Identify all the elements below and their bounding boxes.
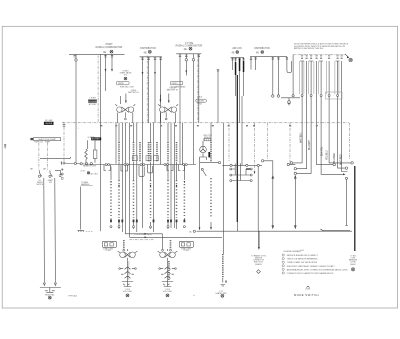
reverse switch black box [88,100,97,103]
svg-text:4E: 4E [184,47,187,51]
drop hooks below y164.5 bus [104,165,185,177]
dashed lower horizontal y239.8 [130,239,155,241]
svg-text:TYPE 4A.1: TYPE 4A.1 [68,294,77,297]
node B fuse symbol [144,50,152,54]
mid wire v182.3 [181,123,183,165]
ground tree 2 stem [167,260,169,281]
svg-text:SWITCH: SWITCH [36,184,43,186]
ground tree 2 label [163,289,172,293]
mid chain v150.5 [150,123,152,229]
mid wire v174.3 [173,123,175,228]
svg-text:ANTENNA RELAY JOINT CONNECTOR: ANTENNA RELAY JOINT CONNECTOR (GREEN) AT… [287,268,348,271]
small bus y162.6 [200,162,219,164]
ground cluster symbols [45,288,55,293]
jumper hooks top of section 3 [230,163,252,181]
ground bar y287.5 [40,287,61,289]
svg-text:TURBO START SW DEFROSTER: TURBO START SW DEFROSTER [287,261,318,264]
svg-text:BODY GND: BODY GND [123,291,132,293]
start switch symbol [50,170,53,176]
legend row 6 [282,272,334,275]
mid wire v100.5 [100,54,102,231]
wire x180 from bus C [179,54,181,165]
svg-text:MODE SWITCH: MODE SWITCH [294,293,319,297]
right wire v329.1 bend right to circle [329,61,351,163]
connector circles on y164.5 bus [105,164,107,166]
bus A connector tick x112 [111,56,113,57]
svg-text:START: START [105,43,113,46]
injector connector box right [179,241,193,247]
svg-text:SERVICE ENGINE SW CONNECT: SERVICE ENGINE SW CONNECT [287,255,319,257]
banded wire x243.5 [243,58,245,97]
left relay resistor zigzag [85,149,88,160]
svg-text:4E: 4E [232,52,235,55]
relay K2 pre-label box [170,81,183,84]
partner pin stubs of right comb [299,61,339,94]
svg-text:CHOKE: CHOKE [45,123,53,125]
mid wire v136.8 [136,123,138,232]
dashed wire v229 [228,123,230,161]
wire x232.3 short [231,58,233,71]
arrowhead on x155 [154,72,156,75]
wire x278.4 to connector circle [277,57,279,95]
left edge connector mark [4,145,6,149]
wire x218 isolated with connector tick [217,70,219,123]
bracket marks at left bus end [61,161,66,165]
tiny pin labels above right connector row [301,55,343,56]
mid wire v153.5 [153,123,155,232]
svg-text:SUB ZERO START ASSY GREEN CONN: SUB ZERO START ASSY GREEN CONNECTOR ATT [287,265,336,268]
wire x155 from bus B [154,57,156,123]
short chain v157 [156,142,158,162]
tiny stacked symbols at x62 [61,168,63,170]
mid wire chain v119 (stacked wire code text) [118,123,120,229]
left relay wires [86,140,95,163]
connector circles on left bus [74,162,76,164]
left horizontal wire y158.7 [40,157,71,159]
dashed feed to oxygen sensor note [258,231,260,248]
relay K2 lower pins [160,112,175,118]
mid chain v168 [167,123,169,229]
legend row 1 [282,254,318,257]
wire: long vertical from bus A left [75,54,77,162]
switch symbol near 202,171 [203,170,207,176]
connector blob row y220 [110,220,185,223]
dashed wire v254.5 with arrow [254,123,256,173]
injector connector box right label [181,247,192,252]
ground tree 1 bar [122,282,133,287]
heated sensor chain wire [222,254,224,278]
short chain v148.5 [148,142,150,162]
oil pressure switch symbol [40,170,43,176]
bus E horizontal wire [250,56,287,58]
svg-text:WHT/RED: WHT/RED [341,154,343,165]
wire v111 with chain [110,167,112,223]
wire v242 parallel [241,96,243,165]
arrow from dashed line to ground [345,54,349,57]
svg-text:A/T ONLY: A/T ONLY [91,173,99,176]
svg-text:TO EGI: TO EGI [183,250,189,252]
right section connector row ticks [300,57,343,61]
throttle sensor labels [203,135,213,139]
bus B connector ticks [141,58,162,59]
injector connector box left [102,241,116,247]
svg-text:RADIAL COMPENSATOR: RADIAL COMPENSATOR [176,45,203,48]
wire v184.4 with chain [183,167,185,223]
svg-text:C TYPE: C TYPE [185,43,194,45]
wire x186.3 from bus C with arrowhead [185,54,187,76]
svg-text:BLK/YEL: BLK/YEL [321,146,323,156]
throttle sensor stem [200,153,207,160]
svg-text:DISTRIBUTOR: DISTRIBUTOR [140,48,156,50]
relay K2 solenoid circles with cross [160,107,165,112]
banded wire x235.5 (black sleeve) [235,58,237,97]
legend row 3 [282,261,318,264]
injector 2 bowtie solenoid [158,249,178,260]
wire bend from circle x288 to v295.3 [290,164,296,166]
heated sensor earth circle [221,294,224,297]
svg-text:1.25 B: 1.25 B [125,289,130,291]
mid wire v171 [170,123,172,228]
hollow arrowheads at ground wires [43,283,56,286]
mid chain v133.5 [133,123,135,229]
dashed wire v38.9 below pump [38,143,40,170]
feed terminal circles at injectors [123,249,125,251]
choke black box [44,122,54,125]
legend row 5 [282,268,348,271]
arrowhead on x105.5 [105,69,107,72]
harness label text [81,181,90,186]
svg-text:BODY GND: BODY GND [163,291,172,293]
left relay black box [91,137,101,140]
heated sensor terminal [221,285,226,286]
rotated wire color labels right section [300,132,342,165]
ground tree 1 crow feet [125,267,131,278]
dashed marks right of ground [86,231,93,233]
small connector block left of pump box [30,138,33,140]
svg-text:A 5MT: A 5MT [306,288,311,291]
wire x148.7 from bus B [148,57,150,123]
heavy center vertical wire [236,75,238,222]
wire v293 from dashed jumper [292,55,294,95]
svg-text:4E: 4E [256,52,259,55]
ground tree 2 earth circle [166,294,169,297]
lower horizontal y237.3 with arrow [130,236,223,238]
wire x160.7 from bus B [160,57,162,165]
connector circle + bend to v294.8 wait covered above [287,163,289,165]
relay K1 solenoid circles with cross [117,107,122,112]
connector mark on v64 [63,125,66,127]
turbo start solenoid symbol [124,77,127,80]
left relay connector circles [85,163,87,165]
legend row 4 [282,265,335,268]
arrowhead on x112 [111,69,113,72]
bus C connector ticks [179,55,200,56]
left ground wire 2 [54,178,57,283]
throttle sensor black connector [208,152,210,157]
relay K1 feed arrows [125,94,127,103]
wire v223.3 long (heated feed) [222,123,224,254]
dashed wire v349.5 [349,123,351,160]
page ref dot [194,295,195,296]
right wire v337.6 bend right to circle [338,61,346,168]
egi harness earth circle [351,268,354,271]
dashed wire v47.6 below pump [47,143,49,170]
feed wire to injector 2 [162,234,164,249]
short chain v176.5 [176,162,178,229]
svg-text:BATTERY H: BATTERY H [128,91,139,94]
node A label: START / RADIAL COMPENSATOR header text [96,43,123,49]
right wire v321.1 long U bottom with arrow [321,61,343,174]
note text top right [294,42,349,50]
feed chain to injector 2 [170,240,172,249]
ground tree 2 crow feet [165,267,171,278]
injection pump label box [34,138,61,141]
svg-text:(BLACK): (BLACK) [255,263,262,266]
connector id dots along divider [100,125,317,126]
turbo start solenoid label [120,71,133,77]
ground earth circle [48,296,51,299]
svg-text:IGN SW: IGN SW [197,101,204,103]
injector 1 bowtie solenoid [118,249,138,260]
relay K1 labels [120,86,139,94]
dashed wire v290 [289,123,291,164]
svg-text:4E: 4E [103,50,106,54]
svg-text:AT TEMP: AT TEMP [89,103,97,106]
svg-text:WHT/BLU: WHT/BLU [300,132,302,143]
right wire v341.6 bend right [342,61,348,172]
section divider dash-dot line y122.8 [62,122,349,124]
svg-text:BLU/RED: BLU/RED [334,153,336,163]
dashed wire v64 [63,122,65,161]
connector boxes row y155.8 [132,156,137,161]
ground symbol top right [349,58,352,61]
horizontal wire y230.5 to mode switch [321,229,351,231]
ground tree 2 bar [162,282,173,287]
relay K1 lower pins [118,112,133,118]
inline connector circle on x76 wire [75,59,77,61]
bus A connector tick x74.5 [74,56,76,57]
banded wire x239.5 [239,58,241,123]
bottom terminal circles of mid wires [110,226,185,228]
throttle sensor hatched box [204,138,211,140]
wire v199.5 from sensor [199,160,201,230]
inline connector circles y95 on right wires [301,95,303,97]
oil pressure switch text [36,180,43,186]
bus A horizontal wire [69,53,125,55]
svg-text:RC CAR: RC CAR [45,119,53,122]
wire v295.3 continuing down with arrows [294,177,296,228]
mid wire v125.3 bends right at y233.8 [124,123,126,234]
legend row 2 [282,258,318,261]
mid wire v193.5 [193,54,195,165]
start switch text [48,179,53,184]
svg-text:4E: 4E [144,50,147,54]
svg-text:RADIAL COMPENSATOR: RADIAL COMPENSATOR [96,46,123,49]
svg-text:METER IS SHOWN IN THIS FIG.: METER IS SHOWN IN THIS FIG. [294,48,324,50]
right wire v306.6 down to bend [297,61,307,169]
svg-text:1.25B EGI MAIN HARN: 1.25B EGI MAIN HARN [134,233,153,236]
heated sensor label [216,291,227,295]
wire x272.8 to connector circle [272,57,274,95]
node C label: C TYPE RADIAL COMPENSATOR header [176,43,203,48]
egi harness note right [349,255,358,265]
wire x255.6 [255,57,257,70]
svg-text:PERKI: PERKI [172,83,178,85]
node C fuse symbol [184,47,193,51]
ground tree 1 label [123,289,132,293]
svg-text:SOL: SOL [124,75,128,77]
mid wire v129.5 bends right at y237.3 [129,123,131,238]
right wire v300 down to bend [293,61,303,163]
feed chain to injector 1 [123,240,125,249]
connector circle [294,172,296,174]
right wire v316.6 bend right [317,61,333,165]
lower horizontal y233.8 with arrow [125,233,162,235]
left ground wire 1 [43,178,46,283]
svg-text:SW: SW [49,182,52,184]
svg-text:FUEL INJ CONT: FUEL INJ CONT [120,86,135,88]
hook wire right of switches [55,170,62,176]
right wire v311.1 down to bend [297,61,312,173]
svg-text:B 31: B 31 [301,250,305,252]
oxygen sensor note text [251,254,267,265]
svg-text:REVERSE: REVERSE [88,101,98,103]
node A fuse symbol [103,50,113,54]
jumper U loop x286.9-291.6 [287,57,292,73]
connector circle [294,168,296,170]
arrowhead on x142.5 [142,72,144,75]
dash wire v211 [210,123,212,230]
heavy right vertical wire [354,166,356,251]
dashed wire v267.6 [267,123,269,160]
svg-text:BATTERY ST: BATTERY ST [167,89,179,92]
short chain v140 [139,142,141,162]
ground symbol under y97.8 bus [288,98,290,101]
svg-text:BUZZER: BUZZER [92,139,100,141]
wire x142.5 from bus B [142,57,144,228]
wire from bus A to EGI relay (x105.5) [105,54,107,91]
wire v116 relay drop [115,123,117,164]
svg-text:BLACK: BLACK [350,263,356,266]
short bus y97.8 right of E [281,97,300,99]
mid bus y165.4 [222,164,262,166]
injector connector box left label [103,247,114,252]
chassis ground bottom left-mid [78,231,84,232]
wire v80.7 down to ground [80,187,82,230]
wire from bus A (x112) [111,54,113,70]
svg-text:YEL/BLU: YEL/BLU [327,150,329,160]
small connector box around x325-341 y92-99 [326,92,343,99]
main mid bus y164.5 [96,164,196,166]
svg-text:TO EGI: TO EGI [105,250,111,252]
svg-text:CONNECTION IN CASSETTE UNIT HA: CONNECTION IN CASSETTE UNIT HARNESS BLK [287,272,335,275]
relay K2 feed arrows [159,95,161,102]
relay K2 labels [167,85,187,91]
bus D connector ticks [231,59,244,60]
connector circle + bend to v272.8 [261,160,263,162]
wire v346.5 mode switch feed [345,177,347,179]
svg-text:DISTRIBUTOR: DISTRIBUTOR [254,48,270,50]
long horizontal bus y231.2 [197,230,353,232]
relay K1 pre-label box [117,81,130,84]
bus B horizontal wire [140,56,163,58]
left end of mid bus y163 [62,163,97,165]
node D fuse symbol [232,51,239,55]
svg-text:PERKI: PERKI [118,83,124,85]
bus E connector ticks [255,58,289,59]
svg-text:PUMP CUT: PUMP CUT [34,142,43,144]
diamond symbol below note [257,270,261,274]
svg-text:AIR CON: AIR CON [232,47,242,50]
wire x198.8 from bus C [198,54,200,123]
node E fuse symbol [256,51,264,55]
ground tree 1 earth circle [126,294,129,297]
svg-text:LEGEND NUMBER: LEGEND NUMBER [284,251,302,253]
bus A connector tick x105.5 [104,56,106,57]
svg-text:C PORT: C PORT [89,98,97,100]
connector circle left end [290,162,292,164]
svg-text:1.25 B: 1.25 B [165,289,170,291]
svg-text:THROTTLE SENSOR REPAIRING: THROTTLE SENSOR REPAIRING [287,258,318,261]
svg-text:BLU/WHT: BLU/WHT [309,139,311,150]
throttle sensor pot circle [200,146,207,153]
left relay coil rect [93,150,97,159]
small arrow on chain 119 [118,185,177,187]
dashed jumper line to note [293,54,345,56]
mid wire v122.3 [121,123,123,232]
ground tree 1 stem [127,260,129,281]
bus C horizontal wire [176,53,201,55]
section divider dash-dot verticals [98,54,198,123]
wire v258.2 down to main bus [257,167,259,232]
bus D horizontal wire [231,57,245,59]
